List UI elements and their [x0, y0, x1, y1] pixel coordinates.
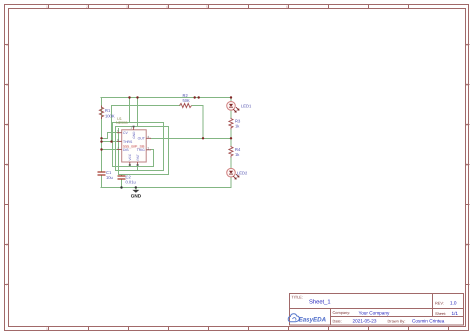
svg-text:DIS: DIS	[123, 148, 129, 152]
wire R4 to LED2	[230, 157, 232, 168]
op-amp U1 555 timer box	[116, 117, 151, 166]
svg-text:1/1: 1/1	[452, 311, 459, 316]
pin 6 THRS stub	[117, 140, 122, 142]
resistor R1	[99, 106, 114, 120]
wire LED2 to rail	[230, 177, 232, 188]
wire VCC top rail	[101, 97, 231, 99]
svg-text:F: F	[6, 283, 8, 287]
wire third wrap	[116, 127, 169, 175]
wire CV jog	[102, 133, 118, 139]
wire VCC drop 1	[113, 98, 154, 167]
svg-text:OUT: OUT	[138, 137, 145, 141]
pin 5 CV stub	[117, 132, 122, 134]
node left-cv	[100, 137, 102, 139]
svg-text:LED1: LED1	[241, 104, 252, 109]
wire LED1 to R3	[230, 110, 232, 118]
svg-text:Date:: Date:	[333, 318, 342, 323]
wire RST pin stub join	[137, 165, 139, 171]
svg-text:Sheet:: Sheet:	[435, 311, 446, 316]
svg-text:THRS: THRS	[123, 140, 133, 144]
svg-text:CV: CV	[123, 131, 128, 135]
frame ticks right	[466, 45, 470, 285]
svg-text:1: 1	[46, 5, 48, 9]
capacitor C2	[118, 175, 136, 185]
wire DIS	[102, 149, 118, 151]
wire R1 column	[101, 98, 103, 172]
wire top h-line long	[113, 122, 164, 124]
svg-text:LED2: LED2	[237, 171, 248, 176]
capacitor C1	[98, 170, 113, 180]
wire VCC pin stub join	[129, 165, 131, 167]
svg-text:Sheet_1: Sheet_1	[309, 299, 331, 306]
svg-text:1: 1	[46, 327, 48, 331]
wire C1 bottom to rail	[101, 176, 103, 188]
svg-text:6: 6	[286, 5, 288, 9]
resistor R3	[229, 118, 241, 130]
svg-text:2021-05-23: 2021-05-23	[353, 318, 377, 323]
svg-text:REV:: REV:	[435, 300, 444, 305]
wire C2 column top	[121, 175, 123, 176]
node rail-vcc2	[136, 96, 138, 98]
node rail-vcc1	[128, 96, 130, 98]
LED LED1	[227, 102, 252, 113]
node thrs-r2	[110, 140, 112, 142]
wire R2 left vertical	[111, 106, 113, 142]
svg-text:R1: R1	[105, 108, 111, 113]
svg-text:100K: 100K	[105, 114, 115, 119]
wire THRS	[102, 140, 118, 142]
node left-dis	[100, 148, 102, 150]
wire VCC drop 2	[116, 98, 164, 171]
pin 3 OUT stub	[146, 137, 151, 139]
svg-text:RST: RST	[136, 154, 140, 160]
node left-thrs	[100, 140, 102, 142]
LED LED2	[227, 168, 248, 179]
wire LED1 column	[230, 98, 232, 102]
svg-text:GND: GND	[132, 131, 136, 139]
wire OUT node to R4	[230, 138, 232, 146]
svg-text:555_BIP_SB: 555_BIP_SB	[123, 144, 145, 148]
wire C2 column bottom	[121, 180, 123, 188]
pin 7 DIS stub	[117, 149, 122, 151]
svg-text:1.0: 1.0	[450, 300, 457, 305]
pin 2 TRIG stub	[146, 149, 151, 151]
svg-text:3: 3	[126, 5, 128, 9]
svg-text:Drawn By:: Drawn By:	[388, 318, 406, 323]
svg-text:Cosmin Crintea: Cosmin Crintea	[412, 318, 445, 323]
svg-text:2: 2	[86, 5, 88, 9]
pin 4 RST stub bottom	[137, 162, 139, 166]
node rail-a	[194, 96, 196, 98]
node out-r2	[202, 137, 204, 139]
pin names	[123, 131, 145, 161]
node out-led	[230, 137, 232, 139]
svg-text:10u: 10u	[106, 175, 113, 180]
node gnd-tap	[135, 186, 137, 188]
svg-text:50K: 50K	[183, 98, 191, 103]
wire GND bottom rail	[101, 187, 231, 189]
svg-text:TITLE:: TITLE:	[292, 296, 303, 300]
pin 1 GND stub top	[133, 126, 135, 130]
svg-text:Company:: Company:	[333, 310, 351, 315]
wire R2 right lead	[192, 106, 203, 139]
svg-text:VCC: VCC	[128, 153, 132, 160]
wire OUT	[151, 137, 231, 139]
junction dots	[100, 96, 232, 150]
ground symbol	[131, 190, 142, 198]
EasyEDA logo	[288, 314, 326, 324]
svg-text:0.01u: 0.01u	[126, 180, 136, 185]
wire R2 left lead	[112, 105, 181, 107]
svg-text:EasyEDA: EasyEDA	[299, 317, 327, 324]
svg-text:TRIG: TRIG	[137, 148, 145, 152]
svg-text:GND: GND	[131, 193, 142, 198]
pin 8 VCC stub bottom	[129, 162, 131, 166]
node rail-b	[198, 96, 200, 98]
node gnd-c2	[120, 186, 122, 188]
svg-text:NE555: NE555	[116, 121, 128, 125]
node rail-led1	[230, 96, 232, 98]
wire GND stub	[135, 188, 137, 190]
pin numbers	[117, 125, 149, 150]
svg-text:Your Company: Your Company	[359, 310, 390, 315]
frame ticks bottom	[49, 327, 449, 331]
svg-text:5: 5	[206, 5, 208, 9]
wire R3 to OUT node	[230, 129, 232, 138]
frame ticks left	[5, 45, 9, 285]
svg-text:4: 4	[166, 5, 168, 9]
frame ticks top	[49, 5, 409, 9]
resistor R2	[180, 93, 192, 108]
resistor R4	[229, 146, 241, 158]
